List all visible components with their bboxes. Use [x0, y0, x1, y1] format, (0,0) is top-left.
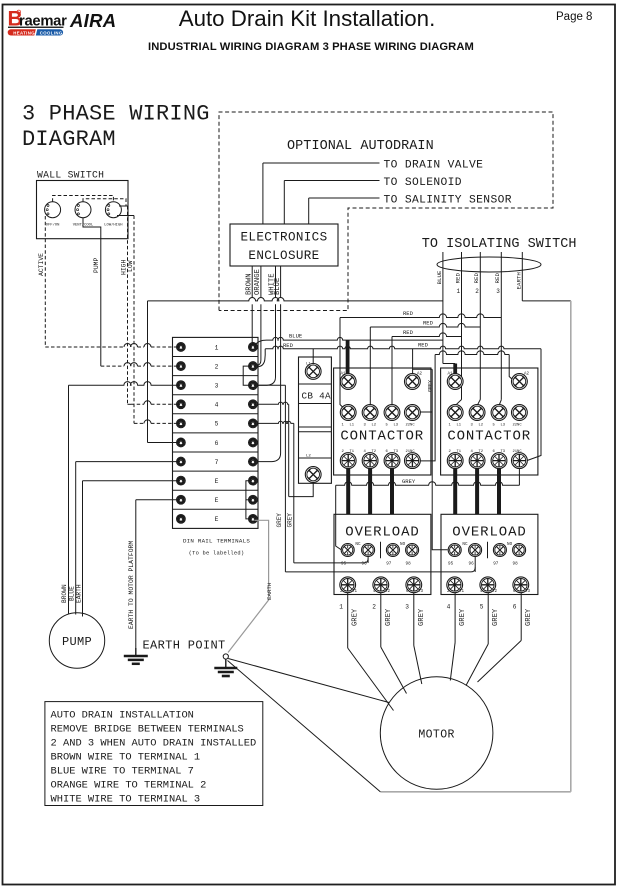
svg-text:CONTACTOR: CONTACTOR [447, 429, 531, 445]
svg-text:98: 98 [513, 562, 519, 567]
svg-text:5: 5 [386, 423, 389, 427]
svg-text:1: 1 [339, 604, 343, 611]
svg-text:EARTH TO MOTOR PLATFORM: EARTH TO MOTOR PLATFORM [128, 541, 135, 629]
svg-text:RED: RED [283, 342, 294, 349]
svg-text:L1: L1 [350, 423, 355, 427]
svg-text:GREY: GREY [402, 478, 416, 485]
svg-text:TO SOLENOID: TO SOLENOID [384, 177, 462, 189]
svg-text:NO: NO [507, 542, 513, 547]
svg-text:A1: A1 [341, 373, 347, 377]
svg-text:BROWN WIRE TO TERMINAL 1: BROWN WIRE TO TERMINAL 1 [51, 752, 201, 764]
svg-text:RED: RED [403, 329, 414, 336]
svg-text:3: 3 [471, 423, 474, 427]
svg-text:E: E [215, 516, 219, 523]
svg-text:TO SALINITY SENSOR: TO SALINITY SENSOR [384, 195, 512, 207]
svg-text:21NC: 21NC [406, 450, 416, 454]
svg-text:TO ISOLATING SWITCH: TO ISOLATING SWITCH [422, 237, 577, 252]
svg-text:2: 2 [372, 604, 376, 611]
svg-text:L1: L1 [457, 423, 462, 427]
svg-text:2: 2 [475, 288, 479, 295]
svg-text:2: 2 [215, 363, 219, 370]
svg-text:CONTACTOR: CONTACTOR [340, 429, 424, 445]
svg-text:REMOVE BRIDGE BETWEEN TERMINAL: REMOVE BRIDGE BETWEEN TERMINALS [51, 724, 244, 736]
svg-text:5: 5 [480, 604, 484, 611]
svg-text:EARTH: EARTH [76, 584, 83, 603]
svg-text:DIAGRAM: DIAGRAM [22, 127, 116, 152]
svg-text:95: 95 [448, 562, 454, 567]
svg-text:GREY: GREY [492, 608, 500, 626]
svg-text:3: 3 [405, 604, 409, 611]
svg-text:1: 1 [457, 288, 461, 295]
svg-text:T1: T1 [457, 450, 462, 454]
svg-text:GREY: GREY [525, 608, 533, 626]
svg-text:4: 4 [215, 402, 219, 409]
svg-text:COOLING: COOLING [40, 30, 63, 35]
svg-text:T1: T1 [352, 590, 358, 594]
svg-text:7: 7 [215, 459, 219, 466]
svg-text:98: 98 [406, 562, 412, 567]
svg-text:RED: RED [473, 273, 480, 284]
svg-text:A1: A1 [448, 373, 454, 377]
svg-text:CB 4A: CB 4A [302, 391, 332, 402]
svg-text:MOTOR: MOTOR [418, 729, 455, 742]
svg-text:T3: T3 [501, 450, 506, 454]
svg-text:TO DRAIN VALVE: TO DRAIN VALVE [384, 160, 484, 172]
svg-text:6: 6 [215, 440, 219, 447]
svg-text:L2: L2 [479, 423, 484, 427]
svg-text:ELECTRONICS: ELECTRONICS [241, 231, 328, 245]
svg-text:NC: NC [355, 542, 361, 547]
svg-text:WHITE WIRE TO TERMINAL 3: WHITE WIRE TO TERMINAL 3 [51, 794, 201, 806]
svg-text:DIN RAIL TERMINALS: DIN RAIL TERMINALS [183, 538, 250, 545]
svg-text:BLUE: BLUE [436, 270, 443, 284]
svg-text:L2: L2 [306, 455, 311, 459]
svg-text:NC: NC [462, 542, 468, 547]
svg-text:3 PHASE WIRING: 3 PHASE WIRING [22, 102, 210, 127]
svg-text:RED: RED [494, 273, 501, 284]
svg-text:T2: T2 [372, 450, 377, 454]
svg-text:ORANGE WIRE TO TERMINAL 2: ORANGE WIRE TO TERMINAL 2 [51, 780, 207, 792]
svg-text:3: 3 [496, 288, 500, 295]
svg-text:GREY: GREY [418, 608, 426, 626]
svg-text:BROWN: BROWN [61, 584, 68, 603]
svg-text:NO: NO [400, 542, 406, 547]
svg-text:97: 97 [493, 562, 499, 567]
svg-text:RED: RED [423, 319, 434, 326]
svg-text:21NC: 21NC [513, 450, 523, 454]
svg-text:LOW: LOW [127, 260, 134, 272]
svg-text:EARTH POINT: EARTH POINT [143, 639, 226, 653]
svg-text:OVERLOAD: OVERLOAD [452, 525, 526, 541]
svg-text:5: 5 [493, 423, 496, 427]
svg-text:Auto Drain Kit Installation.: Auto Drain Kit Installation. [179, 6, 436, 31]
svg-text:T2: T2 [479, 450, 484, 454]
svg-text:(To be labelled): (To be labelled) [189, 551, 245, 557]
svg-text:A2: A2 [417, 373, 423, 377]
svg-text:GREY: GREY [352, 608, 360, 626]
svg-text:PUMP: PUMP [62, 635, 92, 649]
svg-text:ORANGE: ORANGE [254, 269, 262, 295]
svg-text:96: 96 [362, 562, 368, 567]
svg-text:AUTO DRAIN INSTALLATION: AUTO DRAIN INSTALLATION [51, 710, 194, 722]
svg-text:22NC: 22NC [513, 423, 523, 427]
svg-text:PUMP: PUMP [93, 257, 100, 273]
svg-text:WALL SWITCH: WALL SWITCH [37, 170, 104, 181]
svg-text:1: 1 [215, 344, 219, 351]
svg-text:LOW/HIGH: LOW/HIGH [104, 223, 122, 228]
svg-text:T3: T3 [418, 590, 424, 594]
svg-text:GREY: GREY [459, 608, 467, 626]
svg-text:RED: RED [418, 341, 429, 348]
svg-text:EARTH: EARTH [266, 582, 273, 600]
svg-text:L1: L1 [306, 363, 311, 367]
svg-text:T2: T2 [385, 590, 391, 594]
svg-text:A2: A2 [524, 373, 530, 377]
svg-text:BLUE: BLUE [69, 586, 76, 601]
svg-text:4: 4 [447, 604, 451, 611]
svg-text:ENCLOSURE: ENCLOSURE [248, 249, 319, 263]
svg-text:1: 1 [342, 423, 345, 427]
svg-text:6: 6 [513, 604, 517, 611]
svg-text:L2: L2 [372, 423, 377, 427]
svg-text:OPTIONAL AUTODRAIN: OPTIONAL AUTODRAIN [287, 139, 434, 154]
svg-text:96: 96 [469, 562, 475, 567]
svg-text:L3: L3 [501, 423, 506, 427]
svg-text:Page 8: Page 8 [556, 11, 592, 23]
svg-text:E: E [215, 497, 219, 504]
svg-text:2 AND 3 WHEN AUTO DRAIN INSTAL: 2 AND 3 WHEN AUTO DRAIN INSTALLED [51, 738, 257, 750]
svg-text:GREY: GREY [385, 608, 393, 626]
svg-text:BLUE WIRE TO TERMINAL 7: BLUE WIRE TO TERMINAL 7 [51, 766, 194, 778]
svg-text:GREY: GREY [287, 513, 294, 528]
svg-text:INDUSTRIAL WIRING DIAGRAM 3 PH: INDUSTRIAL WIRING DIAGRAM 3 PHASE WIRING… [148, 41, 474, 53]
svg-text:BLUE: BLUE [274, 278, 282, 295]
svg-text:AIRA: AIRA [69, 10, 116, 31]
svg-text:T1: T1 [459, 590, 465, 594]
svg-text:97: 97 [386, 562, 392, 567]
svg-text:ACTIVE: ACTIVE [38, 253, 45, 276]
svg-text:BLUE: BLUE [289, 333, 303, 340]
svg-text:3: 3 [215, 382, 219, 389]
svg-text:OVERLOAD: OVERLOAD [345, 525, 419, 541]
svg-text:3: 3 [364, 423, 367, 427]
svg-text:T3: T3 [525, 590, 531, 594]
svg-text:E: E [215, 478, 219, 485]
svg-text:L3: L3 [394, 423, 399, 427]
svg-text:22NC: 22NC [406, 423, 416, 427]
svg-text:EARTH: EARTH [515, 272, 522, 290]
svg-text:5: 5 [215, 421, 219, 428]
svg-text:GREY: GREY [276, 513, 283, 528]
svg-text:T3: T3 [394, 450, 399, 454]
svg-text:RED: RED [403, 310, 414, 317]
svg-text:95: 95 [341, 562, 347, 567]
svg-text:BROWN: BROWN [245, 273, 253, 295]
svg-text:RED: RED [454, 273, 461, 284]
svg-text:T2: T2 [492, 590, 498, 594]
svg-text:HEATING: HEATING [13, 30, 35, 35]
svg-text:OFF/ON: OFF/ON [46, 223, 60, 228]
svg-text:T1: T1 [350, 450, 355, 454]
svg-text:1: 1 [449, 423, 452, 427]
